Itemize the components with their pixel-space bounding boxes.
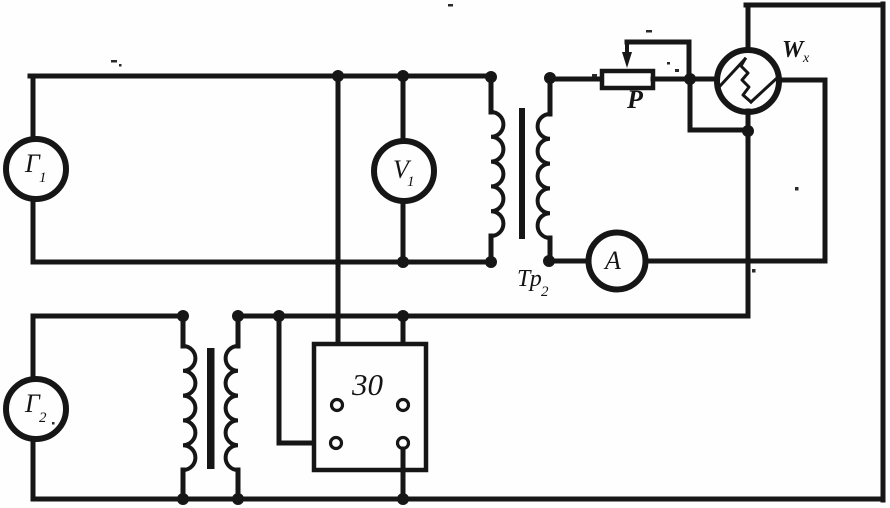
wire: G1 bottom to bottom bus bbox=[31, 200, 36, 262]
svg-text:1: 1 bbox=[39, 170, 47, 186]
wire: shunt from P output node down bbox=[688, 79, 693, 130]
rheostat slider arrowhead bbox=[622, 52, 632, 68]
label V1 bbox=[393, 155, 415, 190]
junction: top bus / long vertical bbox=[332, 70, 344, 82]
terminal: ZO lower-left bbox=[331, 438, 342, 449]
bolometer Wx bbox=[717, 50, 779, 112]
wire: left vertical to G2 top bbox=[31, 316, 36, 378]
junction: Tp2 secondary top bbox=[544, 72, 556, 84]
wire: G2 bottom to bottom bus bbox=[31, 440, 36, 498]
wire: Tp2 secondary bottom to ammeter bbox=[549, 259, 587, 264]
label G2 bbox=[24, 389, 47, 426]
transformer Tp1 secondary winding bbox=[226, 316, 238, 499]
label G1 bbox=[24, 149, 47, 186]
junction: Tp1 primary top bbox=[177, 310, 189, 322]
wire: Wx right lead bbox=[779, 78, 825, 83]
voltmeter V1 bbox=[374, 141, 434, 201]
svg-text:30: 30 bbox=[351, 367, 384, 402]
label P bbox=[626, 85, 644, 114]
wire: ZO lower-right terminal to bottom bus bbox=[401, 449, 406, 498]
transformer Tp2 secondary winding bbox=[538, 78, 550, 261]
junction: bottom bus / ZO bbox=[397, 493, 409, 505]
wire: left vertical to G1 top bbox=[31, 76, 36, 138]
transformer Tp2 primary winding bbox=[491, 77, 503, 262]
generator G1 bbox=[6, 139, 66, 199]
junction: P output node bbox=[684, 73, 696, 85]
wire: Tp2 secondary top to rheostat P bbox=[550, 77, 602, 82]
wire: ammeter to right branch bbox=[647, 259, 825, 264]
transformer Tp2 core bbox=[519, 108, 525, 239]
generator G2 bbox=[6, 379, 66, 439]
junction: top bus / V1 bbox=[397, 70, 409, 82]
svg-text:2: 2 bbox=[39, 410, 47, 426]
wire: top bus of generator-1 loop bbox=[30, 74, 492, 79]
svg-text:x: x bbox=[802, 51, 810, 66]
junction: Tp2 secondary bottom / ammeter wire bbox=[543, 255, 555, 267]
wire: lower middle bus bbox=[238, 314, 748, 319]
transformer Tp1 primary winding bbox=[183, 316, 195, 499]
wire: rheostat P to Wx left terminal bbox=[653, 77, 716, 82]
wire: right branch down to ammeter bbox=[823, 80, 828, 261]
wire: common bottom bus bbox=[33, 497, 883, 502]
ammeter A bbox=[589, 233, 646, 290]
rheostat slider arrow shaft bbox=[625, 44, 629, 58]
junction: Wx bottom node bbox=[742, 125, 754, 137]
wire: far right vertical bbox=[881, 4, 886, 500]
wire: long vertical from top bus down to ZO terminal bbox=[336, 76, 341, 399]
junction: branch to ZO lower-left terminal bbox=[273, 310, 285, 322]
scan speckles (noise) bbox=[52, 4, 799, 425]
junction: Tp1 secondary bottom bbox=[232, 493, 244, 505]
terminal: ZO upper-right bbox=[398, 400, 409, 411]
wire: shunt across to Wx bottom node bbox=[690, 128, 748, 133]
junction: Tp1 primary bottom bbox=[177, 493, 189, 505]
transformer Tp1 core bbox=[207, 348, 215, 469]
junction: Tp2 primary bottom bbox=[485, 256, 497, 268]
svg-text:A: A bbox=[603, 246, 621, 275]
junction: lower bus / ZO upper-right lead bbox=[397, 310, 409, 322]
label ZO bbox=[351, 367, 384, 402]
wire: slider loop top and right bbox=[627, 42, 689, 74]
svg-text:P: P bbox=[626, 85, 644, 114]
svg-text:1: 1 bbox=[407, 174, 415, 190]
svg-text:2: 2 bbox=[541, 284, 549, 300]
wire: top bus of generator-2 loop bbox=[33, 314, 183, 319]
wire: bottom bus of generator-1 loop bbox=[33, 260, 492, 265]
label A bbox=[603, 246, 621, 275]
svg-text:W: W bbox=[782, 37, 805, 63]
wire: top right link bbox=[746, 3, 883, 8]
wire: Wx bottom lead down to lower bus bbox=[746, 111, 751, 316]
label Wx bbox=[782, 37, 810, 66]
rheostat P body bbox=[602, 71, 653, 88]
wire: Wx top lead bbox=[746, 5, 751, 51]
wire: lead to ZO upper-right terminal bbox=[401, 316, 406, 399]
device ZO box bbox=[314, 344, 426, 470]
junction: Tp2 primary top bbox=[485, 71, 497, 83]
wire: branch down and right to ZO lower-left terminal bbox=[279, 316, 330, 443]
junction: Tp1 secondary top bbox=[232, 310, 244, 322]
junction: bottom bus / V1 bbox=[397, 256, 409, 268]
wire: V1 lower lead bbox=[401, 202, 406, 262]
bolometer Wx internal element bbox=[720, 59, 777, 102]
svg-text:Тр: Тр bbox=[517, 266, 542, 292]
label Tp2 bbox=[517, 266, 549, 300]
terminal: ZO upper-left bbox=[332, 400, 343, 411]
terminal: ZO lower-right bbox=[398, 438, 409, 449]
wire: V1 upper lead bbox=[401, 76, 406, 139]
